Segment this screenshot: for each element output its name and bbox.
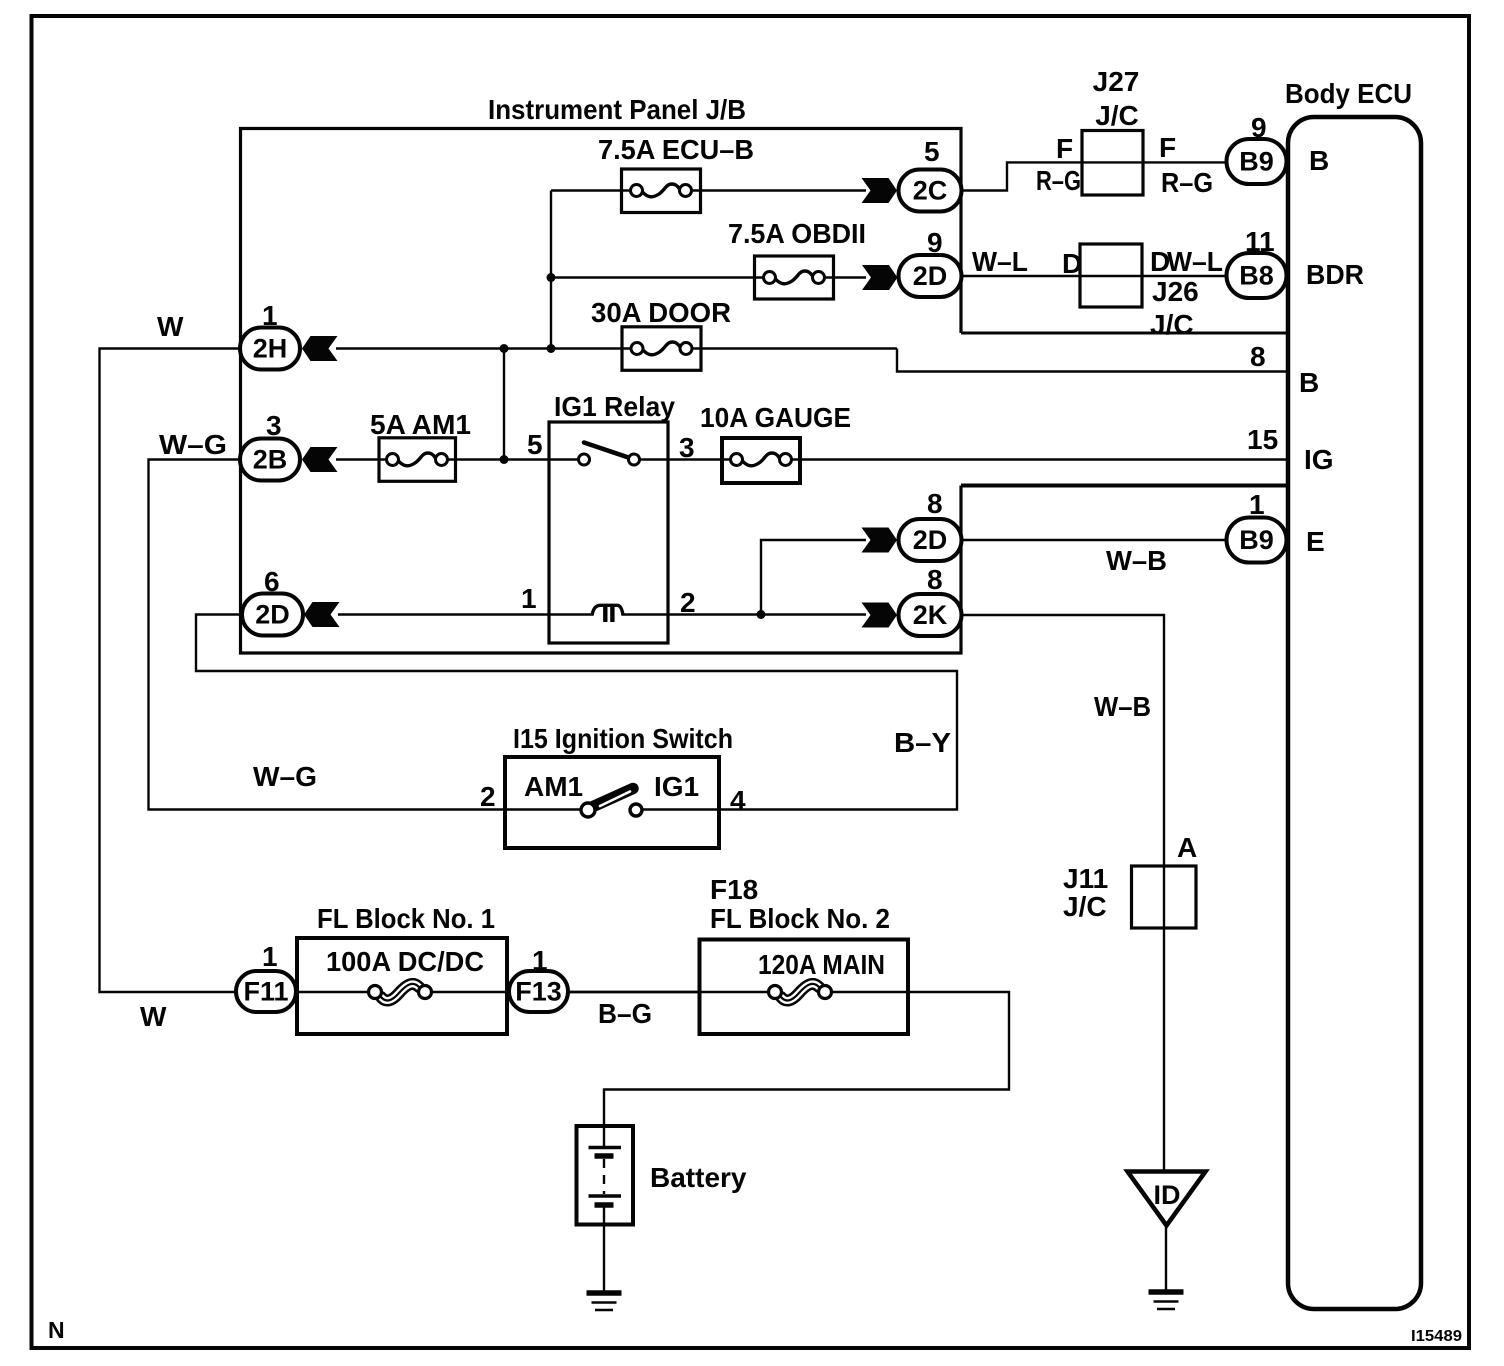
svg-text:30A DOOR: 30A DOOR xyxy=(591,297,731,328)
svg-text:B9: B9 xyxy=(1239,525,1274,555)
svg-text:1: 1 xyxy=(262,941,278,972)
svg-text:3: 3 xyxy=(679,432,695,463)
svg-text:AM1: AM1 xyxy=(524,771,583,802)
svg-text:Battery: Battery xyxy=(650,1162,747,1193)
svg-text:A: A xyxy=(1177,832,1197,863)
svg-text:1: 1 xyxy=(521,583,537,614)
svg-text:B–Y: B–Y xyxy=(894,727,951,758)
svg-text:2: 2 xyxy=(680,587,696,618)
svg-text:FL Block No. 2: FL Block No. 2 xyxy=(710,903,890,934)
svg-text:B8: B8 xyxy=(1239,261,1274,291)
svg-text:J/C: J/C xyxy=(1150,309,1194,340)
svg-text:1: 1 xyxy=(262,300,278,331)
svg-text:10A GAUGE: 10A GAUGE xyxy=(700,402,851,433)
svg-text:J27: J27 xyxy=(1093,66,1140,97)
svg-text:IG1 Relay: IG1 Relay xyxy=(554,391,675,422)
svg-text:2D: 2D xyxy=(255,600,290,630)
svg-text:7.5A OBDII: 7.5A OBDII xyxy=(728,218,866,249)
svg-text:2C: 2C xyxy=(913,176,948,206)
svg-text:W: W xyxy=(157,311,184,342)
svg-text:IG1: IG1 xyxy=(654,771,699,802)
svg-text:F13: F13 xyxy=(515,977,562,1007)
svg-text:W–B: W–B xyxy=(1094,691,1151,722)
svg-text:D: D xyxy=(1062,248,1082,279)
svg-text:5: 5 xyxy=(924,136,940,167)
svg-text:ID: ID xyxy=(1154,1180,1181,1210)
svg-text:9: 9 xyxy=(1251,112,1267,143)
svg-text:100A DC/DC: 100A DC/DC xyxy=(326,946,484,977)
svg-text:B: B xyxy=(1309,145,1329,176)
svg-text:R–G: R–G xyxy=(1036,165,1081,196)
svg-text:W–B: W–B xyxy=(1106,545,1167,576)
svg-text:F: F xyxy=(1159,132,1176,163)
svg-text:W–L: W–L xyxy=(972,246,1028,277)
svg-text:120A MAIN: 120A MAIN xyxy=(758,949,885,980)
svg-text:FL Block No. 1: FL Block No. 1 xyxy=(317,903,495,934)
svg-text:J11: J11 xyxy=(1063,863,1108,894)
svg-text:4: 4 xyxy=(730,785,746,816)
svg-text:F18: F18 xyxy=(710,874,758,905)
svg-text:W–L: W–L xyxy=(1167,246,1223,277)
svg-text:J/C: J/C xyxy=(1095,100,1139,131)
svg-text:R–G: R–G xyxy=(1161,167,1213,198)
svg-text:2H: 2H xyxy=(253,334,288,364)
svg-text:W–G: W–G xyxy=(159,429,227,460)
svg-text:N: N xyxy=(48,1317,65,1343)
svg-text:2B: 2B xyxy=(253,445,288,475)
svg-text:5A AM1: 5A AM1 xyxy=(370,409,471,440)
svg-text:8: 8 xyxy=(927,488,943,519)
svg-text:I15 Ignition Switch: I15 Ignition Switch xyxy=(513,723,733,754)
svg-text:7.5A ECU–B: 7.5A ECU–B xyxy=(598,134,754,165)
svg-text:W–G: W–G xyxy=(253,761,317,792)
svg-text:8: 8 xyxy=(927,564,943,595)
svg-text:Instrument Panel J/B: Instrument Panel J/B xyxy=(488,94,746,125)
svg-text:B–G: B–G xyxy=(598,998,652,1029)
svg-text:11: 11 xyxy=(1245,226,1275,257)
svg-text:5: 5 xyxy=(527,429,543,460)
svg-text:I15489: I15489 xyxy=(1411,1328,1462,1345)
svg-text:1: 1 xyxy=(1249,489,1265,520)
svg-text:J/C: J/C xyxy=(1063,891,1107,922)
svg-text:B9: B9 xyxy=(1239,147,1274,177)
svg-text:15: 15 xyxy=(1247,424,1278,455)
svg-text:2D: 2D xyxy=(913,525,948,555)
svg-text:6: 6 xyxy=(264,566,280,597)
svg-text:IG: IG xyxy=(1304,444,1334,475)
svg-text:8: 8 xyxy=(1250,341,1266,372)
svg-text:3: 3 xyxy=(266,410,282,441)
svg-text:2: 2 xyxy=(480,781,496,812)
svg-text:Body ECU: Body ECU xyxy=(1285,78,1412,109)
svg-text:BDR: BDR xyxy=(1306,259,1364,290)
svg-text:9: 9 xyxy=(927,227,943,258)
svg-text:2K: 2K xyxy=(913,600,948,630)
svg-text:F11: F11 xyxy=(243,977,288,1007)
svg-text:B: B xyxy=(1299,367,1319,398)
svg-text:D: D xyxy=(1150,246,1170,277)
svg-text:E: E xyxy=(1306,526,1325,557)
svg-text:W: W xyxy=(140,1001,167,1032)
svg-text:J26: J26 xyxy=(1152,276,1199,307)
svg-text:1: 1 xyxy=(532,945,548,976)
svg-text:2D: 2D xyxy=(913,261,948,291)
svg-text:F: F xyxy=(1056,133,1073,164)
